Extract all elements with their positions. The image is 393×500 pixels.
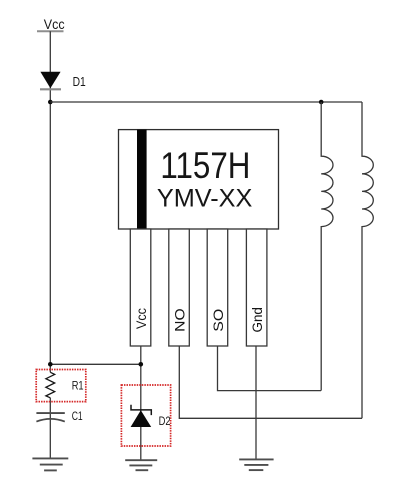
wire: horizontal R1 top to pin1 Vcc [50,363,141,365]
pin 1 Vcc [130,229,151,346]
svg-text:YMV-XX: YMV-XX [157,185,253,212]
ground (below pin4 Gnd) [239,459,273,470]
wire: pin4 Gnd down to ground [255,346,257,459]
wire: top horizontal to coils [50,101,362,103]
power rail Vcc [37,16,65,32]
svg-text:1157H: 1157H [160,145,250,186]
svg-text:Vcc: Vcc [133,308,149,329]
wire: left vertical from Vcc rail through D1, R1 top [49,31,51,372]
svg-text:Vcc: Vcc [44,16,65,32]
ground (left, below C1) [32,458,68,470]
svg-text:C1: C1 [72,409,83,423]
wire: left vertical below R1 through C1 to ground [49,398,51,459]
node: junction left wire / R1 [48,362,53,367]
svg-text:NO: NO [171,308,187,332]
inductor L1 (left coil) [321,102,333,391]
svg-text:SO: SO [210,309,226,332]
pin 3 SO [207,229,228,346]
wire: pin1 Vcc down to D2 and ground [140,346,142,460]
pin 4 Gnd [246,229,267,346]
resistor R1 [36,370,86,402]
diode D1 [40,72,86,90]
wire: pin2 NO down and right to L2 [179,346,362,418]
node: junction D1 / top wire [48,100,53,105]
svg-text:R1: R1 [72,379,84,393]
svg-text:Gnd: Gnd [249,307,265,332]
svg-text:D2: D2 [159,414,171,428]
diode D2 (zener) [121,385,170,446]
node: junction top wire / L1 [319,100,324,105]
IC U1 body [119,130,279,229]
capacitor C1 [36,409,82,423]
svg-text:D1: D1 [73,75,86,89]
pin 2 NO [169,229,190,346]
wire: pin3 SO down and right to L1 [218,346,322,391]
node: junction left wire / pin1 [139,362,144,367]
ground (below D2) [125,460,157,470]
inductor L2 (right coil) [362,102,373,418]
